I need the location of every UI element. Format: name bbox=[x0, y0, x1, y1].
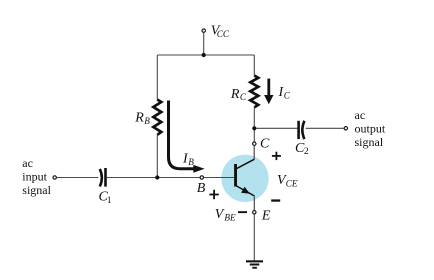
wire junction to base terminal bbox=[157, 177, 199, 179]
svg-text:output: output bbox=[355, 121, 386, 135]
svg-text:V: V bbox=[215, 207, 225, 222]
label IC bbox=[278, 85, 291, 101]
svg-text:B: B bbox=[197, 181, 206, 196]
transistor highlight circle bbox=[221, 155, 268, 202]
transistor emitter arrowhead bbox=[241, 187, 250, 194]
svg-text:2: 2 bbox=[304, 146, 309, 157]
node collector junction (dot) bbox=[252, 126, 256, 130]
wire Vcc stub bbox=[203, 33, 205, 55]
terminal E bbox=[253, 211, 256, 214]
plus sign at base bbox=[209, 190, 218, 199]
arrow IB bbox=[169, 101, 205, 173]
label IB bbox=[182, 151, 194, 167]
svg-text:R: R bbox=[230, 87, 240, 102]
terminal Vcc bbox=[202, 29, 205, 32]
capacitor C2 bbox=[299, 121, 305, 139]
resistor RC bbox=[250, 76, 258, 108]
transistor base bar bbox=[234, 164, 237, 187]
label C1 bbox=[99, 190, 112, 206]
label VCE bbox=[277, 173, 298, 189]
svg-text:1: 1 bbox=[107, 195, 112, 206]
resistor RB bbox=[153, 100, 161, 135]
wire emitter line to E terminal bbox=[253, 196, 255, 211]
transistor emitter line bbox=[236, 186, 254, 196]
svg-text:B: B bbox=[144, 116, 150, 126]
ground bbox=[246, 260, 263, 268]
svg-text:signal: signal bbox=[22, 183, 51, 197]
wire B to transistor base bbox=[204, 177, 234, 179]
svg-text:C: C bbox=[260, 137, 270, 152]
wire emitter to ground bbox=[253, 215, 255, 261]
node base junction (dot) bbox=[155, 175, 159, 179]
svg-text:R: R bbox=[134, 111, 144, 126]
label C2 bbox=[295, 141, 309, 157]
node junction top (dot) bbox=[202, 53, 206, 57]
wire RC to collector junction bbox=[253, 107, 255, 128]
label RB bbox=[134, 111, 150, 126]
wire C terminal to collector line bbox=[253, 146, 255, 160]
label VBE bbox=[215, 207, 236, 223]
transistor Q1 bbox=[234, 146, 254, 210]
minus sign VCE bbox=[271, 199, 280, 201]
svg-text:CC: CC bbox=[217, 29, 230, 39]
terminal B bbox=[200, 176, 203, 179]
svg-text:C: C bbox=[240, 92, 247, 102]
wire input to C1 bbox=[57, 177, 98, 179]
wire left branch lower bbox=[156, 135, 158, 178]
arrow IC bbox=[264, 79, 273, 105]
wire right branch upper bbox=[253, 55, 255, 76]
wire top rail bbox=[157, 54, 254, 56]
svg-text:E: E bbox=[261, 208, 271, 223]
wire left branch upper bbox=[156, 55, 158, 100]
plus sign collector bbox=[272, 152, 281, 160]
svg-text:ac: ac bbox=[22, 156, 33, 170]
svg-text:CE: CE bbox=[286, 178, 298, 188]
minus sign VBE bbox=[238, 211, 247, 213]
terminal ac input bbox=[53, 176, 56, 179]
wire C2 to output bbox=[306, 127, 344, 129]
label Vcc bbox=[211, 24, 230, 40]
svg-text:B: B bbox=[188, 157, 194, 167]
wire C1 to base junction bbox=[107, 177, 157, 179]
label RC bbox=[230, 87, 247, 102]
svg-text:input: input bbox=[22, 170, 47, 184]
wire junction to C terminal bbox=[253, 128, 255, 141]
svg-text:ac: ac bbox=[355, 108, 366, 122]
svg-text:C: C bbox=[284, 91, 291, 101]
terminal ac output bbox=[344, 127, 347, 130]
transistor collector line bbox=[236, 159, 254, 169]
capacitor C1 bbox=[100, 168, 106, 187]
svg-text:signal: signal bbox=[355, 135, 384, 149]
terminal C bbox=[253, 142, 256, 145]
wire collector junction to C2 bbox=[254, 127, 297, 129]
svg-text:BE: BE bbox=[224, 213, 236, 223]
